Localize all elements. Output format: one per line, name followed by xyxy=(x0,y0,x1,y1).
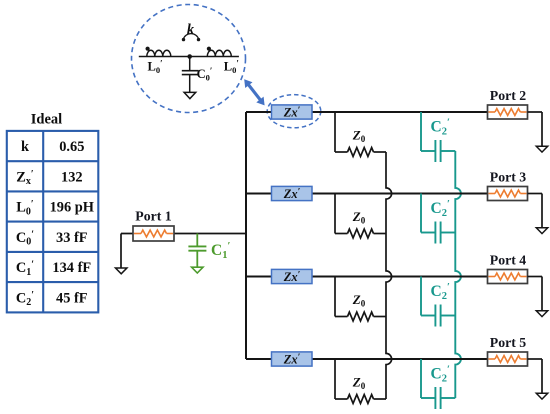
svg-text:134 fF: 134 fF xyxy=(52,260,91,276)
svg-text:Ideal: Ideal xyxy=(31,112,62,128)
svg-text:132: 132 xyxy=(61,169,83,185)
svg-text:0.65: 0.65 xyxy=(59,139,84,155)
svg-text:Port 3: Port 3 xyxy=(490,170,526,185)
svg-text:Port 2: Port 2 xyxy=(490,88,526,103)
svg-text:k: k xyxy=(21,139,29,155)
svg-text:45 fF: 45 fF xyxy=(56,290,88,306)
svg-text:Port 4: Port 4 xyxy=(490,253,526,268)
svg-text:33 fF: 33 fF xyxy=(56,230,88,246)
svg-text:Port 5: Port 5 xyxy=(490,335,526,350)
svg-text:Port 1: Port 1 xyxy=(135,208,171,223)
svg-text:k: k xyxy=(187,22,195,38)
svg-text:196 pH: 196 pH xyxy=(50,200,94,216)
